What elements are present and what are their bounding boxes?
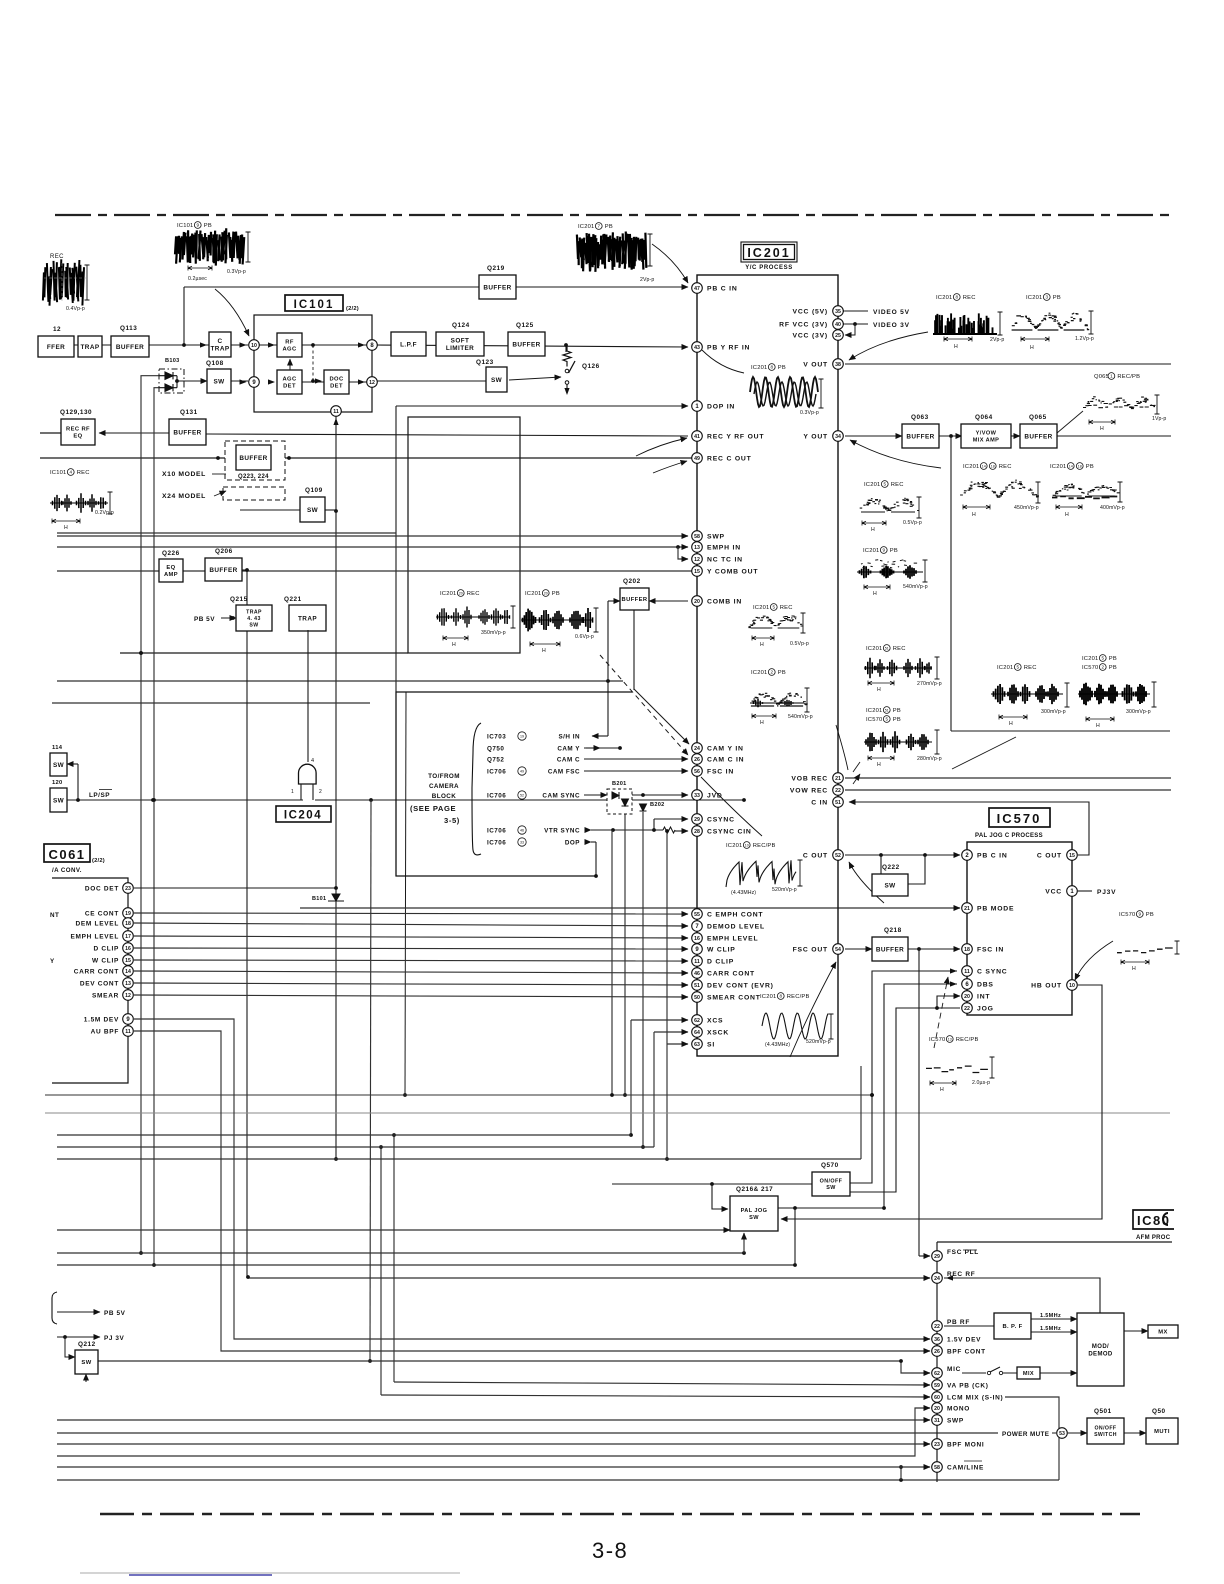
svg-text:35: 35	[835, 309, 841, 315]
wire BPF out 1.5MHz upper	[1031, 1318, 1077, 1320]
svg-text:SOFT: SOFT	[451, 338, 470, 345]
IC061 pin 13 DEV CONT	[123, 978, 134, 989]
svg-text:52: 52	[835, 853, 841, 859]
svg-text:(4.43MHz): (4.43MHz)	[731, 890, 756, 896]
buffer Q202	[620, 588, 649, 610]
switch Q123	[486, 367, 507, 392]
svg-text:4. 43: 4. 43	[247, 616, 261, 622]
svg-text:VIDEO 5V: VIDEO 5V	[873, 309, 910, 316]
wire IC061 pin14 to CARR CONT	[134, 971, 688, 973]
svg-text:PB: PB	[1146, 912, 1154, 918]
svg-text:CAM SYNC: CAM SYNC	[542, 792, 580, 799]
svg-text:11: 11	[333, 409, 339, 415]
svg-text:5: 5	[1101, 656, 1104, 661]
IC80x pin 26 BPF CONT	[932, 1346, 943, 1357]
IC570 pin 2 PB C IN	[962, 850, 973, 861]
IC201 pin 51 DEV CONT (EVR)	[692, 980, 703, 991]
wire bus y=1230 to PAL JOG SW	[57, 1229, 730, 1231]
svg-text:AFM PROC: AFM PROC	[1136, 1235, 1171, 1241]
svg-text:DOC: DOC	[329, 377, 343, 383]
svg-text:IC201: IC201	[751, 670, 767, 676]
svg-text:ON/OFF: ON/OFF	[1095, 1426, 1117, 1432]
svg-text:62: 62	[934, 1371, 940, 1377]
IC201 pin 47 PB C IN	[692, 283, 703, 294]
svg-text:VA PB (CK): VA PB (CK)	[947, 1382, 989, 1389]
wire PAL JOG input riser	[712, 1184, 728, 1209]
svg-text:49: 49	[520, 770, 524, 774]
svg-text:21: 21	[964, 906, 970, 912]
svg-text:0.2µsec: 0.2µsec	[188, 276, 207, 282]
svg-text:EQ: EQ	[166, 565, 175, 571]
svg-text:13: 13	[694, 545, 700, 551]
svg-text:450mVp-p: 450mVp-p	[1014, 505, 1039, 511]
svg-text:Q064: Q064	[975, 414, 993, 421]
wire INT stub	[937, 996, 960, 1008]
IC201 pin 40 RF VCC (3V)	[833, 319, 844, 330]
svg-text:IC703: IC703	[487, 733, 506, 740]
svg-text:AMP: AMP	[164, 572, 178, 578]
wire IC061 pin9 route	[134, 1019, 930, 1339]
IC201 pin 21 VOB REC	[833, 773, 844, 784]
svg-text:IC204: IC204	[284, 810, 322, 822]
svg-text:Q065: Q065	[1029, 414, 1047, 421]
trap Q221	[289, 605, 326, 631]
IC201 pin 13 EMPH IN	[692, 542, 703, 553]
svg-text:15: 15	[125, 958, 131, 964]
svg-text:51: 51	[885, 709, 889, 713]
svg-text:PB: PB	[893, 717, 901, 723]
IC201 label	[741, 242, 797, 262]
svg-text:ON/OFF: ON/OFF	[820, 1179, 843, 1185]
svg-text:15: 15	[694, 569, 700, 575]
IC101 arrowheads	[200, 342, 207, 347]
wire pointer diagonal near frame	[952, 737, 1016, 769]
svg-text:BUFFER: BUFFER	[876, 946, 904, 953]
svg-text:36: 36	[934, 1337, 940, 1343]
svg-text:IC201: IC201	[864, 482, 880, 488]
svg-text:58: 58	[934, 1465, 940, 1471]
wire riser x=861	[860, 1066, 862, 1159]
svg-text:300mVp-p: 300mVp-p	[1126, 709, 1151, 715]
svg-text:POWER MUTE: POWER MUTE	[1002, 1431, 1049, 1438]
IC570 pin 11 C SYNC	[962, 966, 973, 977]
annotation arrow to VOB REC pins	[836, 725, 848, 770]
svg-text:Q501: Q501	[1094, 1408, 1112, 1415]
svg-text:20: 20	[694, 599, 700, 605]
svg-text:8: 8	[779, 994, 782, 999]
svg-text:2Vp-p: 2Vp-p	[990, 337, 1004, 343]
buffer Q125	[508, 332, 545, 356]
svg-text:H: H	[1009, 721, 1014, 727]
svg-text:X24 MODEL: X24 MODEL	[162, 493, 206, 500]
svg-text:26: 26	[934, 1349, 940, 1355]
IC570 label	[989, 808, 1050, 827]
wire Q202 bottom riser x=634	[633, 610, 635, 690]
svg-text:H: H	[452, 642, 457, 648]
wire Q123 to Q126 control	[509, 377, 561, 380]
wire Q065 out y=436	[1056, 435, 1171, 437]
IC80x pin 62 MIC	[932, 1368, 943, 1379]
wire S/H IN row	[592, 735, 608, 737]
page footer blue mark	[129, 1574, 272, 1576]
svg-text:EMPH IN: EMPH IN	[707, 544, 741, 551]
IC061 pin 9 1.5M DEV	[123, 1014, 134, 1025]
svg-text:IC80: IC80	[1137, 1213, 1170, 1228]
buffer Q218	[872, 937, 908, 961]
IC201 pin 56 FSC IN	[692, 766, 703, 777]
wire HB OUT route	[781, 985, 1102, 1219]
IC101 pin 9	[249, 377, 260, 388]
svg-text:SMEAR: SMEAR	[92, 992, 119, 999]
svg-text:VOB REC: VOB REC	[791, 775, 828, 782]
svg-text:10: 10	[1069, 983, 1075, 989]
svg-text:TO/FROM: TO/FROM	[428, 773, 460, 780]
svg-text:PB 5V: PB 5V	[104, 1310, 126, 1317]
wire vertical x=667	[666, 831, 668, 1159]
wire vertical x=336 (IC101 pin11 down)	[335, 410, 337, 1159]
wire IC061 pin12 to SMEAR CONT	[134, 995, 688, 997]
wire dashed diagonal to CAM C IN	[600, 655, 688, 755]
svg-text:VCC (3V): VCC (3V)	[793, 332, 828, 339]
on/off switch Q501	[1087, 1418, 1124, 1444]
svg-text:SWP: SWP	[707, 533, 725, 540]
buffer Q063	[902, 424, 939, 448]
svg-text:SW: SW	[213, 378, 225, 385]
resistor-switch Q126	[563, 345, 571, 367]
wire VIDEO 3V stub	[845, 323, 868, 325]
svg-text:DEM LEVEL: DEM LEVEL	[76, 920, 120, 927]
IC570 pin 6 DBS	[962, 979, 973, 990]
annotation arrow waveform to pin47	[652, 244, 688, 283]
IC201 pin 46 CARR CONT	[692, 968, 703, 979]
overline FSC PLL	[963, 1249, 977, 1251]
svg-text:2Vp-p: 2Vp-p	[640, 277, 654, 283]
IC061 pin 18 DEM LEVEL	[123, 918, 134, 929]
wire bus y=703	[52, 702, 370, 704]
wire VOW REC row y=790	[845, 789, 1171, 791]
svg-text:REC: REC	[77, 470, 90, 476]
svg-text:BUFFER: BUFFER	[483, 284, 511, 291]
svg-text:B202: B202	[650, 802, 665, 808]
wire bus y=1444 BPF MONI	[57, 1443, 930, 1445]
svg-text:31: 31	[934, 1418, 940, 1424]
svg-text:53: 53	[1059, 1431, 1065, 1437]
svg-text:DOP: DOP	[565, 839, 580, 846]
svg-text:TRAP: TRAP	[211, 346, 230, 353]
IC201 pin 26 CAM C IN	[692, 754, 703, 765]
IC201 pin 25 VCC (3V)	[833, 330, 844, 341]
svg-text:PJ 3V: PJ 3V	[104, 1335, 125, 1342]
svg-text:2: 2	[319, 789, 322, 795]
overline CAM/LINE	[964, 1460, 982, 1462]
svg-text:CAM Y IN: CAM Y IN	[707, 745, 744, 752]
svg-text:TRAP: TRAP	[246, 609, 262, 615]
svg-text:22: 22	[934, 1324, 940, 1330]
wire DOP row	[591, 841, 596, 843]
wire Q219 riser	[183, 287, 185, 345]
annotation arrow FSC OUT	[790, 962, 836, 1057]
svg-text:60: 60	[934, 1395, 940, 1401]
wire JOG net	[850, 1008, 960, 1192]
IC061 pin 14 CARR CONT	[123, 966, 134, 977]
svg-text:14: 14	[1069, 465, 1073, 469]
svg-text:300mVp-p: 300mVp-p	[1041, 709, 1066, 715]
camera block bracket	[472, 723, 481, 855]
svg-text:Y OUT: Y OUT	[803, 433, 828, 440]
svg-text:B201: B201	[612, 781, 627, 787]
svg-text:520mVp-p: 520mVp-p	[772, 887, 797, 893]
buffer (cut) Q112	[38, 336, 74, 357]
svg-text:H: H	[760, 642, 765, 648]
wire DOP vertical x=396	[395, 406, 397, 876]
wire bus y=1159	[57, 1158, 861, 1160]
camera block outline	[396, 692, 632, 876]
svg-text:Q065: Q065	[1094, 374, 1109, 380]
wire C IN route from IC570 C OUT	[849, 802, 1089, 855]
svg-text:1.2Vp-p: 1.2Vp-p	[1075, 336, 1094, 342]
wire SWP bus y=536	[57, 535, 688, 537]
svg-text:LIMITER: LIMITER	[446, 345, 474, 352]
svg-text:RF VCC (3V): RF VCC (3V)	[779, 321, 828, 328]
svg-text:IC201: IC201	[525, 591, 541, 597]
svg-text:DEV CONT (EVR): DEV CONT (EVR)	[707, 982, 774, 989]
svg-text:SW: SW	[53, 797, 65, 804]
svg-text:20: 20	[964, 994, 970, 1000]
svg-text:REC: REC	[780, 605, 793, 611]
svg-text:H: H	[972, 512, 977, 518]
op-amp IC201 block outline	[697, 275, 838, 1056]
svg-text:58: 58	[694, 534, 700, 540]
annotation arrow to pin52	[849, 862, 884, 903]
svg-text:REC: REC	[1024, 665, 1037, 671]
svg-text:46: 46	[694, 971, 700, 977]
svg-text:18: 18	[1078, 465, 1082, 469]
IC061 block outline	[52, 878, 128, 1083]
IC101 pin 10	[249, 340, 260, 351]
wire IC061 pin15 to D CLIP	[134, 960, 688, 961]
AGC DET block	[277, 370, 302, 394]
wire Q126 stub	[565, 345, 567, 352]
svg-text:C OUT: C OUT	[803, 852, 828, 859]
PAL JOG switch Q216,217	[730, 1196, 778, 1231]
svg-text:CARR CONT: CARR CONT	[707, 970, 755, 977]
IC570 pin 22 JOG	[962, 1003, 973, 1014]
wire bus y=681	[57, 680, 623, 682]
wire IC061 pin11 route	[134, 1031, 930, 1351]
IC201 pin 7 DEMOD LEVEL	[692, 921, 703, 932]
wire vertical x=381	[380, 1147, 382, 1395]
wire VTR SYNC row	[591, 829, 663, 831]
wire LP/SP row right segment	[315, 799, 744, 801]
IC570 pin 18 FSC IN	[962, 944, 973, 955]
svg-text:5: 5	[883, 482, 886, 487]
svg-text:IC201: IC201	[997, 665, 1013, 671]
svg-text:38: 38	[835, 362, 841, 368]
svg-text:AGC: AGC	[282, 347, 296, 353]
svg-text:520mVp-p: 520mVp-p	[806, 1039, 831, 1045]
svg-text:RF: RF	[285, 340, 294, 346]
svg-text:0.5Vp-p: 0.5Vp-p	[903, 520, 922, 526]
svg-text:280mVp-p: 280mVp-p	[917, 756, 942, 762]
svg-text:PB: PB	[1053, 295, 1061, 301]
svg-text:13: 13	[948, 1038, 952, 1042]
svg-text:CE CONT: CE CONT	[85, 910, 119, 917]
wire LP/SP row y=800	[67, 799, 303, 801]
svg-text:H: H	[940, 1087, 945, 1093]
wire into CSYNC pin29	[654, 818, 688, 820]
svg-text:IC201: IC201	[440, 591, 456, 597]
switch Q212	[75, 1350, 98, 1374]
wire REC Y RF OUT row y=436	[206, 434, 688, 436]
svg-text:C SYNC: C SYNC	[977, 968, 1007, 975]
svg-text:SWP: SWP	[947, 1417, 964, 1424]
wire LCM MIX feed	[381, 1395, 930, 1397]
IC80x label (cut)	[1133, 1210, 1174, 1229]
svg-text:0.3Vp-p: 0.3Vp-p	[227, 269, 246, 275]
svg-text:V OUT: V OUT	[803, 361, 828, 368]
wire VIDEO 5V stub	[845, 310, 868, 312]
wire riser CAM/LINE to 1480	[900, 1467, 902, 1480]
svg-text:Y COMB OUT: Y COMB OUT	[707, 568, 758, 575]
svg-text:IC570: IC570	[1082, 665, 1098, 671]
wire REC RF to MOD/DEMOD	[944, 1278, 1100, 1313]
svg-text:SW: SW	[53, 762, 65, 769]
wire bus y=1467 CAM/LINE	[57, 1466, 930, 1468]
wire pin53 to Q501	[1068, 1432, 1087, 1434]
wire NC TC IN jog	[678, 547, 688, 559]
switch Q108	[207, 369, 231, 393]
svg-text:REC/PB: REC/PB	[1117, 374, 1140, 380]
svg-text:C IN: C IN	[811, 799, 828, 806]
svg-text:IC706: IC706	[487, 827, 506, 834]
svg-text:11: 11	[964, 969, 970, 975]
wire PB RF to BPF	[944, 1325, 994, 1327]
page border dash-dot top	[55, 214, 1172, 216]
trap 4.43 switch Q215	[236, 605, 272, 631]
svg-text:47: 47	[694, 286, 700, 292]
IC201 pin 58 SWP	[692, 531, 703, 542]
wire CAM FSC row	[584, 770, 688, 772]
svg-text:0.4Vp-p: 0.4Vp-p	[66, 306, 85, 312]
wire PB MODE row y=908	[300, 907, 960, 909]
trap block	[78, 336, 102, 357]
svg-text:IC706: IC706	[487, 792, 506, 799]
svg-text:H: H	[873, 591, 878, 597]
svg-text:CAMERA: CAMERA	[429, 783, 459, 790]
IC201 pin 49 REC C OUT	[692, 453, 703, 464]
wire XCS row	[631, 1019, 688, 1021]
svg-text:1.5MHz: 1.5MHz	[1040, 1326, 1061, 1332]
svg-text:NT: NT	[50, 912, 59, 919]
svg-text:Q206: Q206	[215, 548, 233, 555]
annotation arrow waveform to pin10	[215, 289, 249, 336]
svg-text:PB: PB	[1109, 665, 1117, 671]
svg-text:IC101: IC101	[50, 470, 66, 476]
wire DOP IN row y=406	[396, 405, 688, 407]
svg-text:EMPH LEVEL: EMPH LEVEL	[70, 933, 119, 940]
wire bus y=1253	[57, 1252, 744, 1254]
svg-text:FSC IN: FSC IN	[707, 768, 734, 775]
svg-text:IC201: IC201	[751, 365, 767, 371]
svg-text:14: 14	[982, 465, 986, 469]
annotation arrow FSC IN curve	[701, 777, 762, 836]
svg-text:29: 29	[694, 817, 700, 823]
svg-text:BUFFER: BUFFER	[1024, 433, 1052, 440]
svg-text:TRAP: TRAP	[298, 615, 317, 622]
wire DBS net	[884, 984, 957, 1208]
IC80x pin 20 MONO	[932, 1403, 943, 1414]
buffer Q206	[205, 558, 242, 581]
svg-text:IC201: IC201	[866, 646, 882, 652]
wire vertical x=154 (B103 bottom feed)	[154, 388, 165, 1265]
svg-text:PB: PB	[893, 708, 901, 714]
svg-text:400mVp-p: 400mVp-p	[1100, 505, 1125, 511]
svg-text:IC101: IC101	[177, 223, 193, 229]
svg-text:W CLIP: W CLIP	[92, 957, 119, 964]
svg-text:IC570: IC570	[929, 1037, 945, 1043]
svg-text:20: 20	[459, 592, 463, 596]
wire FSC OUT to Q218	[845, 948, 872, 950]
Y/VOW mix amp Q064	[961, 424, 1011, 448]
svg-text:40: 40	[835, 322, 841, 328]
svg-text:IC201: IC201	[753, 605, 769, 611]
svg-text:Q216& 217: Q216& 217	[736, 1186, 773, 1193]
svg-text:2.0µs-p: 2.0µs-p	[972, 1080, 990, 1086]
wire REC RF EQ left stub	[40, 432, 61, 434]
svg-text:NC TC IN: NC TC IN	[707, 556, 743, 563]
svg-text:IC201: IC201	[1026, 295, 1042, 301]
IC201 pin 51 C IN	[833, 797, 844, 808]
svg-text:/A CONV.: /A CONV.	[52, 867, 82, 874]
svg-text:Y/VOW: Y/VOW	[976, 431, 997, 437]
svg-text:JVD: JVD	[707, 792, 723, 799]
svg-text:4: 4	[311, 758, 314, 764]
IC101 pin 11	[331, 406, 342, 417]
svg-text:PB 5V: PB 5V	[194, 616, 215, 623]
wire vertical x=406 camera box inner	[405, 692, 406, 1095]
svg-text:(4.43MHz): (4.43MHz)	[765, 1042, 790, 1048]
svg-text:SW: SW	[884, 882, 896, 889]
IC201 pin 50 SMEAR CONT	[692, 992, 703, 1003]
svg-text:MONO: MONO	[947, 1405, 970, 1412]
wire Q212 out y=1361	[98, 1360, 901, 1362]
svg-text:H: H	[1100, 426, 1105, 432]
svg-text:56: 56	[694, 769, 700, 775]
wire bus y=1420 SWP	[57, 1419, 930, 1421]
svg-text:IC201: IC201	[578, 224, 594, 230]
IC570 pin 15 C OUT	[1067, 850, 1078, 861]
svg-text:PB MODE: PB MODE	[977, 905, 1014, 912]
svg-text:SI: SI	[707, 1041, 715, 1048]
wire IC061 pin18 to DEMOD LEVEL	[134, 923, 688, 926]
svg-text:Q221: Q221	[284, 596, 302, 603]
wire IC80 block left edge	[936, 1242, 938, 1482]
svg-text:1: 1	[291, 789, 294, 795]
svg-text:BUFFER: BUFFER	[622, 597, 648, 603]
svg-text:B103: B103	[165, 358, 180, 364]
svg-text:12: 12	[53, 326, 61, 333]
svg-text:25: 25	[835, 333, 841, 339]
wire CAM C row	[584, 758, 688, 760]
wire REC RF bus y=1278	[248, 1277, 930, 1279]
annotation arrow to pin34	[850, 440, 941, 468]
svg-text:IC706: IC706	[487, 839, 506, 846]
svg-text:(SEE PAGE: (SEE PAGE	[410, 804, 456, 813]
wire VCC25 jog	[845, 324, 855, 335]
wire B201 out to JVD	[632, 794, 688, 796]
svg-text:INT: INT	[977, 993, 990, 1000]
svg-text:0.2Vp-p: 0.2Vp-p	[95, 510, 114, 516]
